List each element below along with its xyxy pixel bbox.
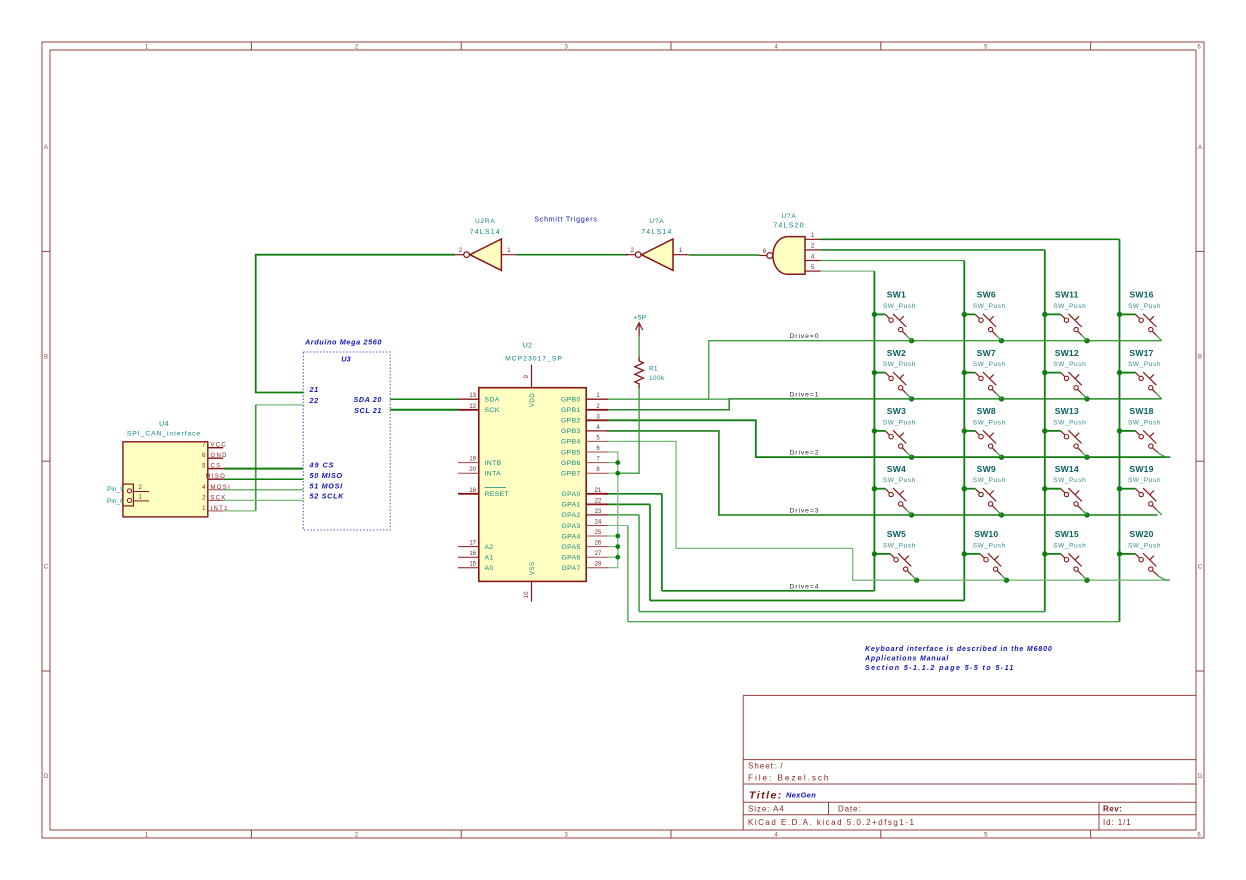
wire: Arduino SDA 20 to U2 pin 13 — [390, 398, 458, 400]
wire: Arduino pin 22 to U4 INT1 — [223, 405, 303, 511]
svg-text:6: 6 — [596, 446, 600, 452]
svg-text:1: 1 — [507, 248, 511, 254]
U2 pin 4 GPB3 — [586, 430, 608, 432]
svg-text:A: A — [44, 145, 48, 151]
svg-text:21: 21 — [595, 488, 602, 494]
svg-text:Title:: Title: — [749, 790, 783, 802]
svg-text:28: 28 — [595, 562, 602, 568]
svg-text:KiCad E.D.A. kicad 5.0.2+dfsg: KiCad E.D.A. kicad 5.0.2+dfsg1-1 — [748, 818, 915, 827]
U2 pin 16 A1 — [458, 556, 479, 558]
svg-text:SW_Push: SW_Push — [1128, 303, 1161, 310]
svg-text:C: C — [44, 564, 49, 570]
switch SW19 SW_Push — [1120, 464, 1162, 515]
svg-text:12: 12 — [469, 404, 476, 410]
wire: inverter1 input from Arduino pin 21 — [256, 255, 454, 393]
switch SW10 SW_Push — [964, 529, 1006, 580]
svg-text:SW_Push: SW_Push — [973, 361, 1006, 368]
svg-text:SW9: SW9 — [977, 464, 996, 474]
wire: Arduino SCL 21 to U2 pin 12 — [390, 409, 458, 411]
switch SW3 SW_Push — [874, 406, 916, 457]
switch SW2 SW_Push — [874, 348, 916, 399]
svg-text:GPB3: GPB3 — [561, 428, 581, 435]
svg-text:SW3: SW3 — [887, 406, 906, 416]
svg-text:20: 20 — [469, 467, 476, 473]
wire: 74LS20 pin2 / column 3 / GPA2 net — [608, 250, 1045, 612]
svg-text:Drive=3: Drive=3 — [790, 508, 820, 515]
svg-text:A0: A0 — [485, 565, 494, 572]
svg-text:1: 1 — [811, 233, 815, 239]
svg-text:24: 24 — [595, 520, 602, 526]
wire: R1 bottom to tie line — [618, 388, 639, 474]
wire: U4 CS to Arduino 49 — [223, 468, 303, 470]
svg-text:GPA1: GPA1 — [561, 502, 580, 509]
svg-text:13: 13 — [469, 393, 476, 399]
svg-text:SW_Push: SW_Push — [883, 303, 916, 310]
svg-text:SCL 21: SCL 21 — [354, 406, 382, 415]
switch SW5 SW_Push — [874, 529, 916, 580]
net label Drive=1 — [790, 391, 820, 398]
U2 pin 24 GPA3 — [586, 525, 608, 527]
svg-text:VDD: VDD — [530, 393, 536, 407]
svg-text:SW16: SW16 — [1129, 290, 1153, 300]
svg-text:Schmitt Triggers: Schmitt Triggers — [534, 217, 597, 224]
svg-text:SW_Push: SW_Push — [883, 361, 916, 368]
svg-text:Pin_9: Pin_9 — [107, 486, 124, 493]
svg-text:74LS14: 74LS14 — [470, 229, 501, 236]
svg-text:SW_Push: SW_Push — [973, 303, 1006, 310]
svg-text:Drive=1: Drive=1 — [790, 391, 820, 398]
U2 pin 1 GPB0 — [586, 398, 608, 400]
U2 pin 6 GPB5 — [586, 451, 608, 453]
U2 pin 8 GPB7 — [586, 472, 608, 474]
wire: GPB1 to Drive=1 row — [608, 399, 1161, 410]
svg-text:SPI_CAN_interface: SPI_CAN_interface — [127, 431, 201, 438]
U2 pin 28 GPA7 — [586, 567, 608, 569]
svg-text:74LS14: 74LS14 — [641, 229, 672, 236]
svg-text:RESET: RESET — [485, 491, 510, 498]
svg-text:U?A: U?A — [781, 213, 796, 220]
svg-text:SW_Push: SW_Push — [1053, 361, 1086, 368]
svg-text:SW15: SW15 — [1055, 529, 1079, 539]
svg-text:22: 22 — [595, 498, 602, 504]
switch SW8 SW_Push — [964, 406, 1006, 457]
svg-text:23: 23 — [595, 509, 602, 515]
svg-text:SW_Push: SW_Push — [1053, 303, 1086, 310]
svg-text:File: Bezel.sch: File: Bezel.sch — [748, 772, 830, 782]
U2 pin 23 GPA2 — [586, 514, 608, 516]
svg-text:52 SCLK: 52 SCLK — [310, 492, 345, 501]
svg-text:INT1: INT1 — [211, 506, 229, 512]
svg-text:GPA0: GPA0 — [561, 491, 580, 498]
svg-text:MISO: MISO — [206, 474, 227, 480]
wire: 74LS20 pin1 / column 4 / GPA3 net — [608, 239, 1120, 622]
svg-text:SW_Push: SW_Push — [973, 542, 1006, 549]
svg-text:U?A: U?A — [649, 218, 664, 225]
svg-text:MCP23017_SP: MCP23017_SP — [505, 356, 563, 363]
svg-text:B: B — [44, 355, 48, 361]
wire: GPB2 to Drive=2 row — [608, 420, 1169, 457]
U2 pin 10 VSS — [531, 581, 533, 601]
svg-text:50 MISO: 50 MISO — [310, 471, 343, 480]
svg-text:R1: R1 — [649, 365, 658, 372]
U2 pin 5 GPB4 — [586, 440, 608, 442]
module U3 Arduino Mega 2560 — [303, 337, 390, 530]
switch SW9 SW_Push — [964, 464, 1006, 515]
svg-text:Section 5-1.1.2 page 5-5 to 5-: Section 5-1.1.2 page 5-5 to 5-11 — [865, 665, 1015, 672]
inverter U?A 74LS14 (second) — [626, 218, 689, 270]
svg-text:15: 15 — [469, 562, 476, 568]
svg-text:4: 4 — [811, 254, 815, 260]
wire: GPB0 to Drive=0 row — [608, 341, 1161, 400]
svg-text:27: 27 — [595, 551, 602, 557]
svg-text:5: 5 — [811, 265, 815, 271]
svg-text:GPB1: GPB1 — [561, 407, 581, 414]
svg-text:SW_Push: SW_Push — [1128, 361, 1161, 368]
svg-text:SW4: SW4 — [887, 464, 906, 474]
svg-text:SW1: SW1 — [887, 290, 906, 300]
svg-text:SW_Push: SW_Push — [1053, 477, 1086, 484]
svg-text:10: 10 — [524, 591, 530, 598]
svg-text:SW20: SW20 — [1129, 529, 1153, 539]
svg-text:SW2: SW2 — [887, 348, 906, 358]
svg-text:MOSI: MOSI — [211, 485, 232, 491]
text note keyboard interface — [864, 646, 1053, 672]
svg-text:SW_Push: SW_Push — [1128, 477, 1161, 484]
U2 pin 25 GPA4 — [586, 535, 608, 537]
switch SW17 SW_Push — [1120, 348, 1162, 399]
switch SW7 SW_Push — [964, 348, 1006, 399]
resistor R1 100k — [635, 358, 665, 388]
svg-text:SW18: SW18 — [1129, 406, 1153, 416]
svg-text:Applications Manual: Applications Manual — [864, 656, 949, 663]
svg-text:A: A — [1198, 145, 1202, 151]
svg-text:Arduino Mega 2560: Arduino Mega 2560 — [304, 337, 382, 346]
wire: pull-up tie line GPB5-GPA7 — [608, 452, 618, 568]
svg-text:SW_Push: SW_Push — [883, 419, 916, 426]
svg-text:Keyboard interface is describe: Keyboard interface is described in the M… — [865, 646, 1053, 653]
net label Drive=4 — [790, 583, 820, 590]
nand gate U?A 74LS20 — [759, 213, 820, 274]
svg-text:D: D — [44, 774, 49, 780]
svg-text:GPB2: GPB2 — [561, 418, 581, 425]
svg-text:VSS: VSS — [530, 561, 536, 575]
svg-text:D: D — [1198, 774, 1203, 780]
svg-text:26: 26 — [595, 541, 602, 547]
svg-text:Drive=0: Drive=0 — [790, 333, 820, 340]
svg-text:2: 2 — [459, 248, 463, 254]
net label Pin_9 — [107, 486, 124, 493]
svg-text:INTB: INTB — [485, 460, 502, 467]
svg-text:NexGen: NexGen — [786, 791, 816, 800]
svg-text:1: 1 — [679, 248, 683, 254]
svg-text:SW5: SW5 — [887, 529, 906, 539]
svg-text:CS: CS — [211, 464, 222, 470]
svg-text:C: C — [1198, 564, 1203, 570]
svg-text:25: 25 — [595, 530, 602, 536]
wire: GPB3 to Drive=3 row — [608, 431, 1157, 515]
svg-text:GPB4: GPB4 — [561, 439, 581, 446]
U2 pin 9 VDD — [531, 365, 533, 388]
U2 pin 17 A2 — [458, 546, 479, 548]
net label Drive=0 — [790, 333, 820, 340]
svg-text:SW_Push: SW_Push — [973, 419, 1006, 426]
U2 pin 21 GPA0 — [586, 493, 608, 495]
U2 pin 3 GPB2 — [586, 419, 608, 421]
svg-text:6: 6 — [763, 249, 767, 255]
svg-text:SW_Push: SW_Push — [1128, 542, 1161, 549]
junction dots: switch matrix columns — [872, 312, 1123, 557]
svg-text:SW7: SW7 — [977, 348, 996, 358]
svg-text:SW11: SW11 — [1055, 290, 1079, 300]
svg-text:SW_Push: SW_Push — [1053, 419, 1086, 426]
svg-text:7: 7 — [596, 457, 600, 463]
power symbol +5P — [633, 315, 646, 337]
junction dots: pull-up tie line — [615, 460, 620, 559]
switch SW6 SW_Push — [964, 290, 1006, 341]
svg-text:B: B — [1198, 355, 1202, 361]
wire: 74LS20 pin4 / column 2 / GPA1 net — [608, 261, 964, 601]
svg-text:SDA: SDA — [485, 397, 500, 404]
svg-text:2: 2 — [811, 244, 815, 250]
svg-text:Id: 1/1: Id: 1/1 — [1103, 818, 1132, 827]
switch SW13 SW_Push — [1045, 406, 1087, 457]
svg-text:SW14: SW14 — [1055, 464, 1079, 474]
switch SW1 SW_Push — [874, 290, 916, 341]
svg-text:GPB5: GPB5 — [561, 449, 581, 456]
svg-text:Drive=2: Drive=2 — [790, 450, 820, 457]
svg-text:GPA4: GPA4 — [561, 533, 580, 540]
wire: 74LS20 pin5 / column 1 / GPA0 Drive=4 net — [608, 271, 874, 591]
svg-text:6: 6 — [1197, 45, 1201, 51]
svg-text:GPA7: GPA7 — [561, 565, 580, 572]
wire: +5P to R1 top — [638, 336, 640, 357]
svg-text:SW_Push: SW_Push — [883, 542, 916, 549]
svg-text:74LS20: 74LS20 — [773, 222, 804, 229]
svg-text:5: 5 — [596, 435, 600, 441]
svg-text:+5P: +5P — [633, 315, 646, 322]
svg-text:SW_Push: SW_Push — [883, 477, 916, 484]
svg-text:SW10: SW10 — [974, 529, 998, 539]
svg-text:U3: U3 — [341, 355, 351, 364]
svg-text:SW13: SW13 — [1055, 406, 1079, 416]
U2 pin 2 GPB1 — [586, 409, 608, 411]
switch SW18 SW_Push — [1120, 406, 1170, 457]
svg-text:8: 8 — [596, 467, 600, 473]
svg-text:GPA2: GPA2 — [561, 512, 580, 519]
U2 pin 26 GPA5 — [586, 546, 608, 548]
svg-text:U4: U4 — [159, 421, 169, 428]
svg-text:9: 9 — [524, 374, 530, 378]
U2 pin 20 INTA — [458, 472, 479, 474]
svg-text:GPA5: GPA5 — [561, 544, 580, 551]
net label Drive=2 — [790, 450, 820, 457]
svg-text:VCC: VCC — [211, 443, 228, 449]
svg-text:SW_Push: SW_Push — [1128, 419, 1161, 426]
U2 pin 12 SCK — [458, 409, 479, 411]
svg-text:SCK: SCK — [485, 407, 500, 414]
svg-text:GPB7: GPB7 — [561, 471, 581, 478]
wire: U4 MISO to Arduino 50 — [223, 478, 303, 480]
wire: inverter2 output to U?A 74LS20 output bubble — [689, 254, 759, 256]
switch SW4 SW_Push — [874, 464, 916, 515]
svg-text:A2: A2 — [485, 544, 494, 551]
svg-text:18: 18 — [469, 488, 476, 494]
U2 pin 15 A0 — [458, 567, 479, 569]
U2 pin 27 GPA6 — [586, 556, 608, 558]
text note Schmitt Triggers — [534, 217, 597, 224]
switch SW15 SW_Push — [1045, 529, 1087, 580]
svg-text:22: 22 — [309, 396, 319, 405]
svg-text:Date:: Date: — [838, 805, 862, 814]
inverter U?A 74LS14 (first) — [454, 218, 517, 270]
svg-text:100k: 100k — [649, 375, 665, 382]
ic U2 MCP23017_SP — [458, 342, 608, 601]
svg-text:GPA6: GPA6 — [561, 555, 580, 562]
switch SW20 SW_Push — [1120, 529, 1170, 580]
switch SW16 SW_Push — [1120, 290, 1162, 341]
svg-text:GPB6: GPB6 — [561, 460, 581, 467]
U2 pin 19 INTB — [458, 462, 479, 464]
svg-text:21: 21 — [309, 385, 319, 394]
svg-text:SW8: SW8 — [977, 406, 996, 416]
wire: inverter1 output to inverter2 input — [517, 254, 628, 256]
switch SW11 SW_Push — [1045, 290, 1087, 341]
svg-text:A1: A1 — [485, 555, 494, 562]
svg-text:4: 4 — [596, 425, 600, 431]
svg-text:1: 1 — [596, 393, 600, 399]
svg-text:SDA 20: SDA 20 — [354, 395, 383, 404]
svg-text:SW19: SW19 — [1129, 464, 1153, 474]
svg-text:SW_Push: SW_Push — [973, 477, 1006, 484]
svg-text:16: 16 — [469, 551, 476, 557]
U2 pin 13 SDA — [458, 398, 479, 400]
svg-text:2: 2 — [631, 248, 635, 254]
svg-text:SW12: SW12 — [1055, 348, 1079, 358]
svg-text:SW6: SW6 — [977, 290, 996, 300]
svg-text:17: 17 — [469, 541, 476, 547]
svg-text:SW17: SW17 — [1129, 348, 1153, 358]
svg-text:51 MOSI: 51 MOSI — [310, 481, 344, 490]
svg-text:Sheet: /: Sheet: / — [748, 761, 784, 770]
wire: U4 MOSI to Arduino 51 — [223, 489, 303, 491]
svg-text:Pin_6: Pin_6 — [107, 498, 124, 505]
U2 pin 22 GPA1 — [586, 503, 608, 505]
svg-text:U2RA: U2RA — [475, 218, 496, 225]
svg-text:GPA3: GPA3 — [561, 523, 580, 530]
svg-text:Size: A4: Size: A4 — [748, 805, 785, 814]
net label Drive=3 — [790, 508, 820, 515]
net label Pin_6 — [107, 498, 124, 505]
svg-text:SW_Push: SW_Push — [1053, 542, 1086, 549]
connector U4 SPI_CAN_interface — [123, 421, 231, 517]
svg-text:Rev:: Rev: — [1103, 805, 1122, 814]
svg-text:49 CS: 49 CS — [309, 461, 335, 470]
svg-text:19: 19 — [469, 457, 476, 463]
svg-text:SCK: SCK — [211, 495, 227, 501]
junction dots: drive rows — [909, 338, 1090, 583]
switch SW12 SW_Push — [1045, 348, 1087, 399]
wire: GPB4 to bottom switch row — [608, 441, 1169, 580]
wire: U4 SCK to Arduino 52 — [223, 499, 303, 501]
svg-text:GPB0: GPB0 — [561, 397, 581, 404]
svg-text:Drive=4: Drive=4 — [790, 583, 820, 590]
svg-text:INTA: INTA — [485, 471, 502, 478]
U2 pin 18 RESET — [458, 493, 479, 495]
svg-text:GND: GND — [211, 453, 228, 459]
svg-text:U2: U2 — [523, 342, 533, 349]
switch SW14 SW_Push — [1045, 464, 1087, 515]
U2 pin 7 GPB6 — [586, 462, 608, 464]
